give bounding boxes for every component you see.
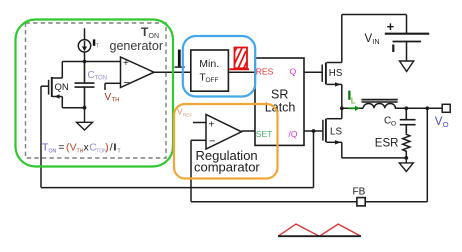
wire: inductor to VO terminal xyxy=(395,107,442,109)
VREF label xyxy=(177,107,192,119)
ground (TON generator) xyxy=(77,108,93,130)
svg-text:V: V xyxy=(105,92,112,103)
blue box (min off timer group) xyxy=(183,36,255,97)
svg-text:−: − xyxy=(209,136,215,148)
min off-time pulse icon (red hatched) xyxy=(230,42,253,80)
op-amp U1 (TON comparator) xyxy=(121,57,155,89)
svg-text:/Q: /Q xyxy=(289,129,298,139)
svg-text:generator: generator xyxy=(110,39,164,53)
SR latch U2 xyxy=(255,58,304,145)
svg-text:T: T xyxy=(96,44,99,50)
Min TOFF block xyxy=(191,50,229,91)
svg-text:T: T xyxy=(118,149,121,155)
IL current label xyxy=(348,91,360,111)
TON generator title xyxy=(110,25,164,53)
svg-text:TH: TH xyxy=(112,98,120,104)
pulse icon (start pulse) xyxy=(175,50,185,68)
wire: /Q to LS gate xyxy=(304,130,323,132)
svg-text:HS: HS xyxy=(329,68,343,79)
orange box (regulation comparator group) xyxy=(174,104,278,179)
regulation comparator caption xyxy=(194,148,260,175)
svg-text:I: I xyxy=(114,142,117,154)
wire: FB net xyxy=(191,108,427,201)
node: ESR bottom xyxy=(404,156,408,160)
ground (VIN) xyxy=(400,61,414,72)
svg-text:TON: TON xyxy=(95,76,108,82)
resistor ESR xyxy=(403,133,410,158)
wire: /Q feedback to QN gate xyxy=(41,86,314,187)
wire: switch node to inductor xyxy=(342,107,363,109)
wire: FB to comparator - input xyxy=(191,140,206,201)
svg-text:REF: REF xyxy=(183,113,193,119)
svg-text:O: O xyxy=(443,120,449,129)
TON formula label xyxy=(42,142,121,155)
svg-text:): ) xyxy=(105,142,109,154)
svg-text:ON: ON xyxy=(49,148,57,154)
svg-text:ESR: ESR xyxy=(375,138,399,150)
wire: Q to HS gate xyxy=(304,71,322,73)
svg-text:RES: RES xyxy=(256,66,274,76)
capacitor CTON xyxy=(75,62,95,108)
switch node xyxy=(340,106,344,110)
wire: top rail to comparator + input xyxy=(62,61,120,63)
svg-text:V: V xyxy=(365,33,373,45)
svg-text:FB: FB xyxy=(353,187,366,198)
svg-text:IN: IN xyxy=(373,39,380,46)
dashed inner box (TON generator boundary) xyxy=(26,23,167,158)
svg-text:comparator: comparator xyxy=(194,160,260,175)
inductor ripple waveform xyxy=(278,224,361,236)
svg-text:L: L xyxy=(351,96,356,105)
svg-text:LS: LS xyxy=(330,127,342,138)
transistor QN xyxy=(41,62,85,108)
svg-text:+: + xyxy=(123,58,129,69)
svg-text:Min.: Min. xyxy=(199,58,219,70)
wire: Min Toff output to RES xyxy=(228,71,255,73)
node: Co top xyxy=(404,106,408,110)
svg-text:Q: Q xyxy=(290,66,297,76)
op-amp U3 (regulation comparator) xyxy=(206,115,242,150)
wire: VREF to comparator + xyxy=(193,122,206,124)
inductor L xyxy=(362,100,398,109)
ground (output) xyxy=(399,158,413,172)
current source IT xyxy=(78,28,90,61)
wire: comparator output to SET xyxy=(242,130,256,132)
VTH source label xyxy=(105,83,121,103)
wire: comparator output to Min Toff xyxy=(154,71,191,73)
capacitor Co xyxy=(400,108,416,133)
green box (TON generator group) xyxy=(16,20,174,167)
transistor HS xyxy=(322,15,342,109)
svg-text:−: − xyxy=(124,77,130,89)
node: FB branch xyxy=(425,106,429,110)
svg-text:O: O xyxy=(391,121,396,128)
FB terminal xyxy=(357,198,365,206)
VO terminal xyxy=(442,104,450,112)
svg-text:SR: SR xyxy=(271,88,288,102)
svg-text:Latch: Latch xyxy=(265,101,296,115)
CTON value label xyxy=(88,70,108,82)
node on /Q wire xyxy=(312,129,316,133)
svg-text:V: V xyxy=(435,116,443,128)
svg-text:/: / xyxy=(110,142,113,154)
svg-text:SET: SET xyxy=(256,129,273,139)
node A (top node of CTON) xyxy=(83,60,87,64)
svg-text:+: + xyxy=(387,19,395,34)
svg-text:QN: QN xyxy=(55,82,69,93)
current source label I_T xyxy=(93,39,96,45)
transistor LS xyxy=(323,108,406,158)
svg-text:+: + xyxy=(209,120,215,131)
node B (bottom node) xyxy=(83,106,87,110)
svg-text:=: = xyxy=(58,142,64,154)
VIN source xyxy=(342,15,429,62)
svg-text:OFF: OFF xyxy=(206,77,219,84)
